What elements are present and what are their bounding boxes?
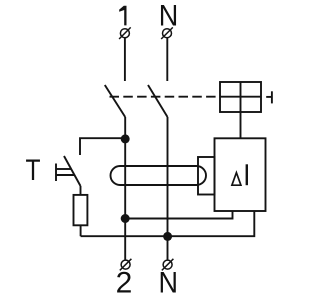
svg-text:T: T [25,152,40,186]
label T (test button) [25,152,40,186]
terminal N bottom (screw terminal) [162,259,174,271]
mechanical linkage (dashed trip line) [110,96,220,98]
terminal N top (screw terminal) [161,27,173,39]
differential relay U1 (ΔI box) [215,138,266,211]
wire: test circuit tap (dot to test button) [80,138,125,155]
junction dot: neutral lower tap [163,232,172,241]
trip box right stub with end bar [266,91,272,103]
test button linkage lines [56,169,74,175]
resistor R (test resistor) [74,195,88,225]
wire: resistor to lower test line [80,225,82,236]
svg-text:N: N [159,266,178,300]
terminal 1 (screw terminal, top left) [119,27,131,39]
trip mechanism box (2x2 cells) [220,82,261,112]
wire: terminal N down to switch contact [166,38,168,81]
wire: blade to resistor [80,186,82,195]
wire: neutral conductor (switch to bottom terminal N) [167,117,169,260]
label N (neutral, bottom) [159,266,178,300]
CT secondary winding block [198,157,215,195]
label N (neutral, top) [159,0,178,33]
junction dot: phase lower tap [121,214,130,223]
svg-text:2: 2 [116,267,133,300]
label 2 (bottom terminal) [116,267,133,300]
switch pole 1 (breaker contact blade) [105,85,125,117]
wire: terminal 1 down to switch contact [124,38,126,81]
label 1 (line terminal) [119,6,126,26]
switch pole N (breaker contact blade) [148,85,168,117]
label ΔI (delta triangle) [232,173,241,186]
label ΔI (I bar) [246,164,248,185]
current transformer toroid (stadium core) [111,166,207,185]
test button cap [55,164,57,182]
wire: lower test line (resistor to relay, through N junction) [81,211,255,236]
test button blade [64,156,81,186]
wire: trip box to differential relay [240,112,242,138]
wire: phase tap to relay bottom [125,211,232,219]
terminal 2 (screw terminal, bottom left) [120,259,132,271]
junction dot: phase to test circuit [121,134,130,143]
svg-text:N: N [159,0,178,33]
wire: phase conductor (switch to bottom terminal 2) [124,117,126,260]
